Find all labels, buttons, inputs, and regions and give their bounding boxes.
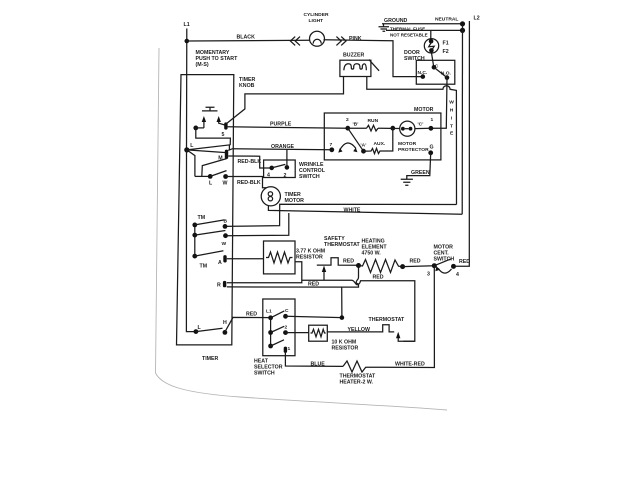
- svg-text:THERMOSTAT: THERMOSTAT: [369, 317, 405, 323]
- node left push contact: [193, 126, 198, 131]
- page border left: [156, 48, 160, 373]
- wire C up to R-red wire: [286, 287, 342, 318]
- svg-text:L1: L1: [266, 309, 272, 315]
- svg-text:HEATER-2 W.: HEATER-2 W.: [340, 380, 374, 386]
- timer arm TM-W: [195, 231, 226, 236]
- wire white timer-motor to neutral: [268, 206, 462, 215]
- motor junction node: [390, 126, 395, 131]
- wire buzzer right to B-line (hops NO drop): [367, 77, 457, 205]
- timer arm TM-B: [195, 220, 225, 225]
- ground symbol top: [379, 24, 390, 31]
- svg-text:4750 W.: 4750 W.: [362, 251, 382, 257]
- svg-text:R: R: [217, 283, 221, 289]
- node junction L1-black: [185, 39, 190, 44]
- svg-text:1: 1: [431, 117, 434, 123]
- wire push contact down to cam: [196, 128, 231, 145]
- wire NO drop to motor terminal 1: [431, 78, 447, 128]
- svg-text:F1: F1: [443, 41, 449, 47]
- svg-text:L: L: [198, 325, 202, 331]
- wire HE to cent switch 3: [403, 265, 435, 268]
- svg-text:F2: F2: [443, 49, 449, 55]
- svg-text:E: E: [450, 131, 454, 137]
- svg-text:W: W: [449, 100, 454, 106]
- heat selector arm L1-C: [271, 311, 285, 318]
- svg-text:G: G: [430, 145, 434, 151]
- thermal fuse F1 F2: [424, 39, 438, 53]
- svg-text:MOTOR: MOTOR: [285, 198, 305, 204]
- svg-text:RESISTOR: RESISTOR: [332, 346, 359, 352]
- svg-text:KNOB: KNOB: [239, 83, 255, 89]
- terminal M blob: [225, 150, 228, 159]
- wire yellow with thermostat element: [327, 325, 394, 332]
- svg-text:'A': 'A': [361, 143, 367, 149]
- safety thermostat arrow: [323, 271, 325, 280]
- svg-text:MOTOR: MOTOR: [398, 141, 417, 147]
- wrinkle arm: [272, 164, 286, 168]
- connector chevrons right: [336, 37, 346, 46]
- ground symbol motor: [401, 179, 413, 185]
- timer arm TM-A: [195, 251, 224, 256]
- motor protector: [400, 121, 415, 136]
- svg-text:4: 4: [267, 173, 270, 179]
- svg-text:W: W: [223, 181, 228, 187]
- svg-text:MOTOR: MOTOR: [414, 107, 434, 113]
- svg-text:RED-BLK: RED-BLK: [238, 159, 262, 165]
- svg-text:CYLINDER: CYLINDER: [304, 12, 329, 18]
- svg-text:GROUND: GROUND: [384, 18, 408, 24]
- heat selector inner column: [270, 318, 272, 346]
- svg-text:TM: TM: [198, 215, 206, 221]
- svg-text:T: T: [450, 124, 453, 130]
- wire 5 up to buzzer: [227, 77, 344, 124]
- heat selector box: [263, 299, 295, 356]
- wire orange M to motor 7: [228, 149, 332, 151]
- svg-text:(M-S): (M-S): [196, 62, 209, 68]
- svg-text:BLACK: BLACK: [237, 35, 256, 41]
- wire neutral drop: [461, 25, 463, 214]
- svg-text:BUZZER: BUZZER: [343, 53, 364, 59]
- wire L1 vertical: [186, 29, 188, 151]
- svg-text:RESISTOR: RESISTOR: [296, 255, 323, 261]
- svg-text:5: 5: [222, 132, 225, 138]
- svg-text:PROTECTOR: PROTECTOR: [398, 147, 429, 153]
- thermostat arrow: [398, 338, 415, 342]
- wire W to timer motor: [226, 177, 267, 188]
- 3.77K resistor box: [264, 241, 296, 274]
- 10K resistor element: [311, 329, 326, 337]
- svg-text:H: H: [223, 320, 227, 326]
- svg-text:SWITCH: SWITCH: [404, 56, 425, 62]
- timer TM chain: [194, 225, 196, 256]
- wire 2 to 10K resistor: [286, 332, 309, 334]
- wire resistor to W1: [227, 262, 302, 283]
- svg-text:TM: TM: [200, 264, 208, 270]
- wire G to ground: [407, 153, 431, 179]
- timer inner feed to L contact: [186, 150, 196, 332]
- svg-text:C: C: [285, 308, 289, 314]
- safety thermostat element: [317, 258, 358, 266]
- wrinkle terminal 4: [269, 166, 274, 171]
- motor switch arm 2-A: [348, 128, 364, 151]
- timer arm L-W: [210, 171, 226, 177]
- svg-text:SWITCH: SWITCH: [299, 174, 320, 180]
- timer box: [177, 75, 234, 345]
- svg-text:LIGHT: LIGHT: [309, 18, 324, 24]
- svg-text:A: A: [218, 260, 222, 266]
- 3.77K resistor element: [266, 252, 293, 263]
- wrinkle terminal 2: [285, 165, 290, 170]
- timer cam wedge: [187, 145, 230, 153]
- terminal 5 blob: [224, 122, 227, 129]
- buzzer striker: [369, 60, 379, 71]
- wire W1 red to thermostat: [302, 280, 415, 341]
- svg-text:I: I: [451, 116, 453, 122]
- wire R to heating element: [227, 266, 359, 288]
- 10K resistor box: [309, 325, 328, 341]
- door switch arm C-NO: [434, 67, 447, 77]
- motor cent switch: [432, 263, 437, 268]
- svg-text:THERMOSTAT: THERMOSTAT: [324, 242, 360, 248]
- svg-text:RED-BLK: RED-BLK: [237, 180, 261, 186]
- svg-text:WHITE-RED: WHITE-RED: [395, 362, 425, 368]
- wire red H to heat selector L1: [225, 317, 271, 332]
- svg-text:2: 2: [285, 325, 288, 331]
- wire buzzer line to B: [225, 204, 457, 226]
- svg-text:'C': 'C': [418, 122, 424, 128]
- svg-text:L1: L1: [184, 22, 190, 28]
- wire 1 down to blue: [285, 352, 343, 366]
- svg-text:L: L: [190, 143, 194, 149]
- svg-text:RED: RED: [308, 282, 319, 288]
- heat selector arm to 1: [271, 340, 284, 346]
- heat selector arm to 2: [271, 326, 285, 332]
- svg-text:3: 3: [427, 272, 430, 278]
- svg-text:L: L: [209, 181, 213, 187]
- wire thermal fuse to neutral: [386, 29, 463, 31]
- thermostat heater element: [343, 361, 366, 372]
- wire cent switch 3 down to white-red: [366, 266, 434, 368]
- node W contact: [223, 174, 228, 179]
- centrifugal arc: [340, 143, 357, 151]
- svg-text:AUX.: AUX.: [374, 141, 386, 147]
- svg-text:PURPLE: PURPLE: [270, 122, 292, 128]
- connector chevrons left: [290, 37, 300, 46]
- svg-text:L2: L2: [474, 16, 480, 22]
- wire fuse drop: [430, 30, 432, 38]
- svg-text:2: 2: [346, 117, 349, 123]
- svg-text:7: 7: [330, 142, 333, 148]
- timer arm L-H: [196, 328, 223, 331]
- svg-text:RED: RED: [246, 312, 257, 318]
- node L contact: [208, 174, 213, 179]
- heating element: [356, 263, 361, 268]
- wire L2 drop: [456, 21, 469, 266]
- node neutral junction dots: [460, 21, 465, 26]
- timer motor: [261, 187, 280, 206]
- svg-text:RUN: RUN: [368, 118, 379, 124]
- arrow left contact: [203, 121, 205, 128]
- svg-text:'B': 'B': [353, 122, 359, 128]
- svg-text:NEUTRAL: NEUTRAL: [435, 16, 458, 22]
- svg-text:NOT RESETABLE: NOT RESETABLE: [390, 32, 428, 37]
- svg-text:SWITCH: SWITCH: [254, 371, 275, 377]
- arrow right contact: [219, 121, 225, 125]
- wire purple 5 to motor 2: [228, 127, 348, 128]
- svg-text:H: H: [450, 108, 454, 114]
- svg-text:RED: RED: [459, 259, 470, 265]
- svg-text:RED: RED: [373, 275, 384, 281]
- timer vane: [187, 150, 227, 177]
- svg-text:BLUE: BLUE: [311, 362, 326, 368]
- svg-text:TIMER: TIMER: [202, 356, 219, 362]
- wire black: [187, 39, 310, 42]
- buzzer: [340, 60, 371, 76]
- svg-text:RED: RED: [410, 259, 421, 265]
- wire pink: [324, 40, 423, 77]
- wire wrinkle 2 to orange: [286, 149, 288, 167]
- svg-text:PINK: PINK: [349, 36, 362, 42]
- wire to L contact: [195, 175, 210, 177]
- svg-text:W: W: [222, 241, 227, 247]
- motor box: [324, 113, 441, 160]
- wire A to resistor: [227, 258, 264, 260]
- door switch box: [416, 60, 455, 84]
- svg-text:RED: RED: [343, 259, 354, 265]
- wire fuse to C: [432, 53, 434, 67]
- svg-text:4: 4: [456, 272, 459, 278]
- push to start button: [202, 107, 218, 111]
- wire ground-neutral top: [382, 23, 463, 25]
- svg-text:GREEN: GREEN: [411, 170, 430, 176]
- page border bottom: [156, 373, 448, 410]
- wire M to wrinkle switch 4: [228, 156, 272, 168]
- svg-text:2: 2: [284, 173, 287, 179]
- svg-text:1: 1: [288, 346, 291, 352]
- wire W to white line: [226, 213, 289, 236]
- wrinkle control switch box: [264, 160, 296, 178]
